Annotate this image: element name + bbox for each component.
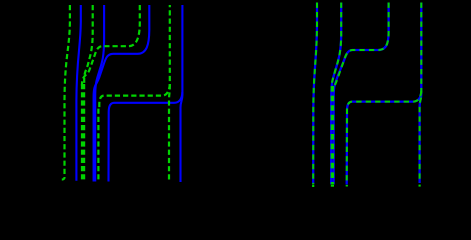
wire G4b lower vertical bbox=[97, 109, 99, 181]
wire R3g green overlay curving in from right, upper part bbox=[335, 3, 389, 87]
wire G1 leftmost green trajectory bbox=[62, 5, 70, 180]
left panel: green dashed trajectories bbox=[62, 5, 170, 181]
right panel: blue solid underlays bbox=[313, 3, 421, 185]
wire G2 second green trajectory bbox=[84, 5, 93, 86]
wire B4b blue branch to lower horizontal bbox=[109, 92, 183, 182]
wire R1g green overlay bbox=[313, 3, 317, 185]
node end-dash dots under right panel lines bbox=[313, 185, 419, 187]
wire R4bg green overlay branch to lower horizontal bbox=[347, 91, 422, 185]
wire G3 green trajectory curving in from right bbox=[82, 5, 140, 86]
wire B2 second blue trajectory bbox=[95, 5, 104, 182]
right panel: green dashed overlays bbox=[313, 3, 421, 185]
wire B1 left blue trajectory bbox=[76, 5, 80, 181]
wire G4b green branch to lower horizontal bbox=[99, 84, 170, 109]
wire R2 blue underlay bbox=[331, 3, 341, 185]
wire R4 straight blue underlay with jog bbox=[420, 3, 422, 184]
wire R-pair merged bottom green overlay (thick green dashes) bbox=[331, 86, 334, 185]
wire R1 blue underlay bbox=[313, 3, 317, 185]
wire G4 straight green trajectory with jog bbox=[168, 5, 171, 180]
wire B3 blue trajectory curving in from right bbox=[94, 5, 150, 182]
wire R4g straight green overlay with jog bbox=[420, 3, 422, 184]
wire R2g green overlay upper part bbox=[332, 3, 342, 87]
left panel: blue solid trajectories bbox=[76, 5, 182, 182]
wire R4b blue underlay branch to lower horizontal bbox=[347, 91, 422, 185]
wire G-pair merged bottom vertical (thick green dashes) bbox=[81, 84, 85, 181]
wire B4 straight blue trajectory with jog bbox=[181, 5, 183, 182]
wire R3 blue underlay curving in from right bbox=[334, 3, 389, 185]
